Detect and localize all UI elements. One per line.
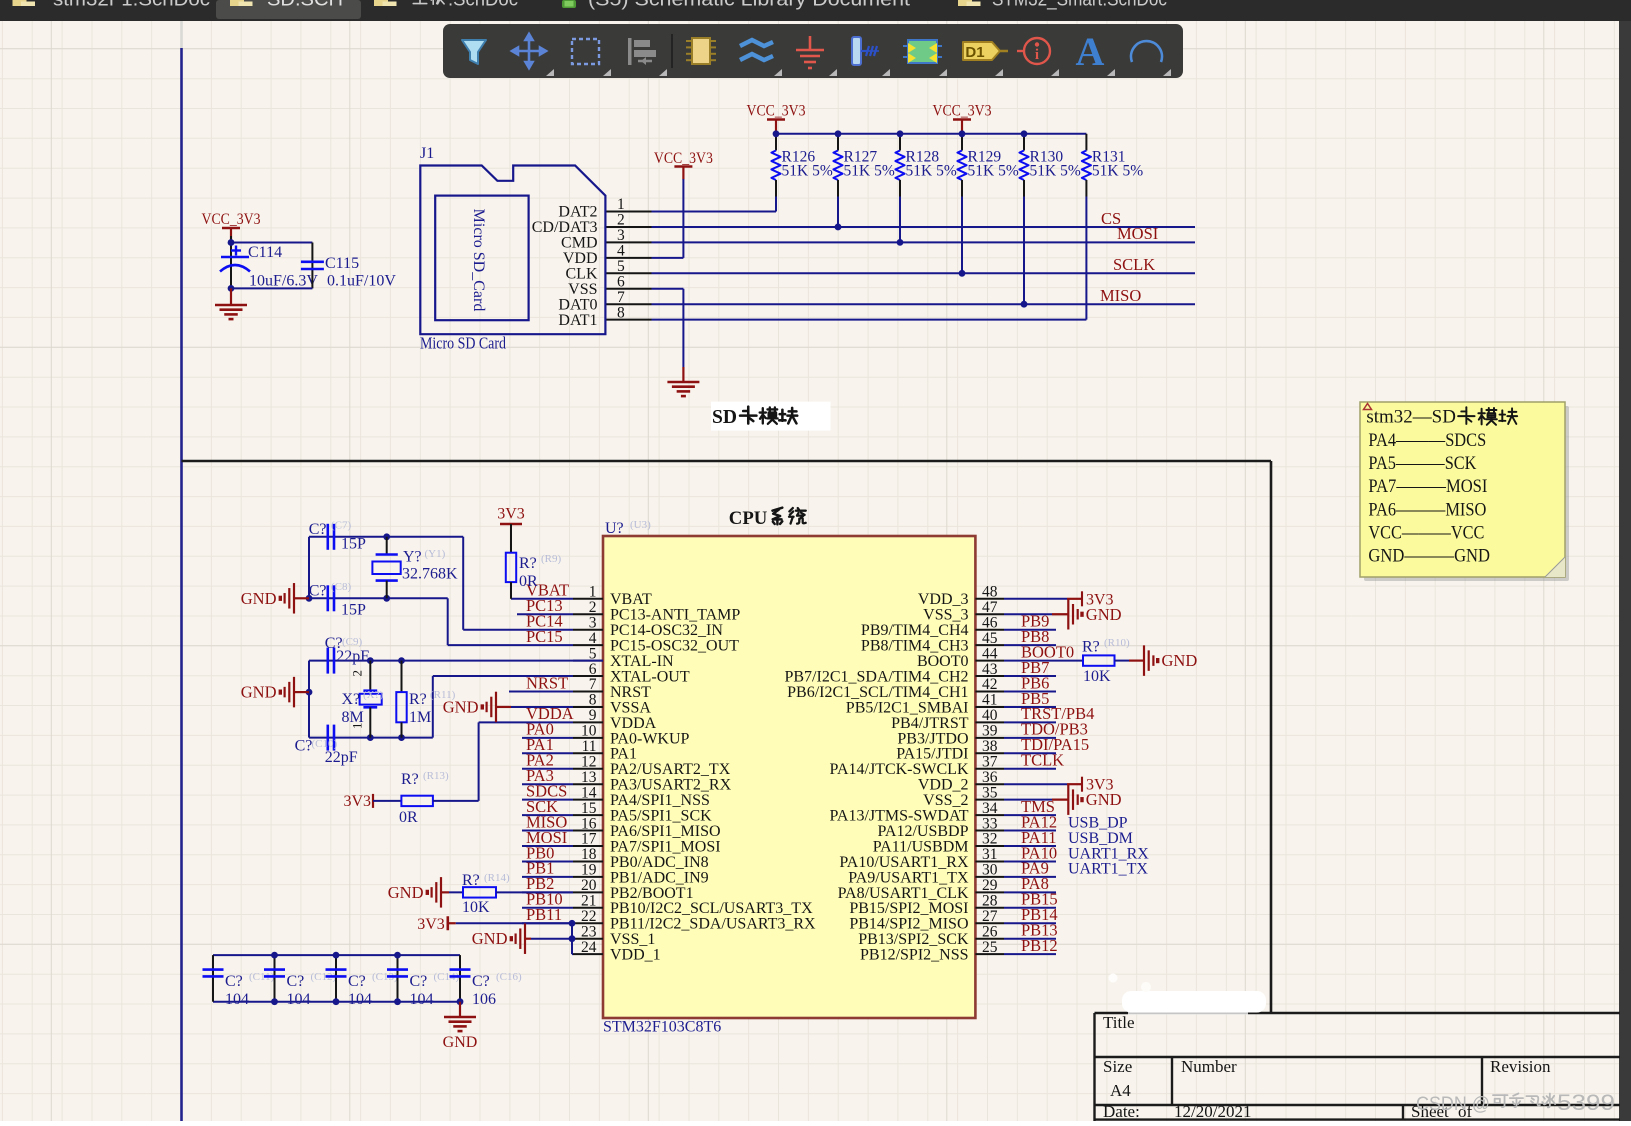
svg-text:PC15: PC15: [526, 627, 563, 646]
svg-text:C?: C?: [287, 973, 305, 990]
svg-text:PC13-ANTI_TAMP: PC13-ANTI_TAMP: [610, 607, 740, 624]
svg-text:14: 14: [581, 784, 597, 801]
svg-text:39: 39: [982, 723, 998, 740]
svg-text:PA7———MOSI: PA7———MOSI: [1368, 476, 1487, 497]
svg-text:Micro SD_Card: Micro SD_Card: [470, 209, 487, 312]
svg-text:104: 104: [225, 991, 249, 1008]
svg-text:VDD_1: VDD_1: [610, 947, 661, 964]
svg-text:15P: 15P: [341, 536, 366, 553]
svg-text:A4: A4: [1110, 1081, 1131, 1100]
svg-text:PB4/JTRST: PB4/JTRST: [891, 715, 969, 732]
svg-text:27: 27: [982, 908, 998, 925]
svg-text:6: 6: [589, 661, 597, 678]
svg-text:USB_DP: USB_DP: [1068, 814, 1128, 831]
svg-text:XTAL-IN: XTAL-IN: [610, 653, 674, 670]
svg-text:17: 17: [581, 831, 597, 848]
svg-text:(S5) Schematic Library Documen: (S5) Schematic Library Document: [588, 0, 911, 11]
svg-text:Y?: Y?: [403, 549, 422, 566]
svg-text:Micro SD Card: Micro SD Card: [420, 334, 507, 353]
svg-text:106: 106: [472, 991, 496, 1008]
svg-text:VBAT: VBAT: [610, 591, 652, 608]
svg-text:1: 1: [589, 584, 597, 601]
svg-text:104: 104: [348, 991, 372, 1008]
svg-text:R?: R?: [401, 771, 419, 788]
svg-text:VCC_3V3: VCC_3V3: [202, 211, 261, 228]
svg-text:(C8): (C8): [331, 581, 352, 593]
svg-text:CMD: CMD: [561, 235, 597, 252]
svg-text:(Y1): (Y1): [425, 548, 446, 560]
svg-text:(R9): (R9): [541, 553, 562, 565]
svg-text:PB15/SPI2_MOSI: PB15/SPI2_MOSI: [849, 900, 968, 917]
svg-text:VSSA: VSSA: [610, 699, 651, 716]
svg-text:R?: R?: [409, 691, 427, 708]
svg-text:PB3/JTDO: PB3/JTDO: [897, 730, 968, 747]
svg-text:GND: GND: [443, 697, 479, 716]
svg-text:15P: 15P: [341, 602, 366, 619]
svg-text:PC14-OSC32_IN: PC14-OSC32_IN: [610, 622, 723, 639]
svg-text:U?: U?: [605, 520, 624, 537]
svg-text:12: 12: [581, 753, 597, 770]
svg-text:PB8/TIM4_CH3: PB8/TIM4_CH3: [861, 638, 969, 655]
svg-text:PA6/SPI1_MISO: PA6/SPI1_MISO: [610, 823, 721, 840]
svg-text:X?: X?: [342, 691, 361, 708]
svg-text:Size: Size: [1103, 1057, 1132, 1076]
svg-text:PB5/I2C1_SMBAI: PB5/I2C1_SMBAI: [846, 699, 969, 716]
svg-text:BOOT0: BOOT0: [917, 653, 969, 670]
svg-text:XTAL-OUT: XTAL-OUT: [610, 668, 690, 685]
svg-text:1M: 1M: [409, 709, 431, 726]
svg-text:GND: GND: [388, 883, 424, 902]
svg-text:8: 8: [589, 692, 597, 709]
svg-text:PB13/SPI2_SCK: PB13/SPI2_SCK: [858, 931, 969, 948]
svg-text:stm32—SD: stm32—SD: [1366, 407, 1456, 428]
svg-text:C115: C115: [325, 255, 359, 272]
svg-text:38: 38: [982, 738, 998, 755]
svg-text:GND: GND: [443, 1034, 478, 1051]
svg-text:PB11: PB11: [526, 905, 562, 924]
svg-text:51K 5%: 51K 5%: [1092, 163, 1143, 180]
svg-text:J1: J1: [420, 145, 434, 162]
svg-text:PA0-WKUP: PA0-WKUP: [610, 730, 690, 747]
svg-text:C?: C?: [309, 583, 327, 600]
svg-text:(C16): (C16): [496, 971, 522, 983]
svg-text:VDD_2: VDD_2: [918, 777, 969, 794]
svg-text:PA4———SDCS: PA4———SDCS: [1368, 430, 1486, 451]
svg-text:PA1: PA1: [610, 746, 637, 763]
svg-text:DAT1: DAT1: [558, 312, 597, 329]
svg-text:33: 33: [982, 815, 998, 832]
svg-text:C?: C?: [410, 973, 428, 990]
svg-text:51K 5%: 51K 5%: [1030, 163, 1081, 180]
svg-text:5399: 5399: [1557, 1090, 1615, 1115]
svg-text:GND: GND: [1086, 605, 1122, 624]
svg-text:PA2/USART2_TX: PA2/USART2_TX: [610, 761, 731, 778]
svg-text:PA8/USART1_CLK: PA8/USART1_CLK: [838, 885, 969, 902]
svg-text:DAT0: DAT0: [558, 296, 597, 313]
svg-text:PB12/SPI2_NSS: PB12/SPI2_NSS: [860, 947, 969, 964]
svg-text:(R10): (R10): [1104, 637, 1130, 649]
svg-text:24: 24: [581, 939, 597, 956]
svg-text:40: 40: [982, 707, 998, 724]
svg-text:D1: D1: [965, 44, 984, 61]
svg-text:(C9): (C9): [342, 636, 363, 648]
svg-text:0.1uF/10V: 0.1uF/10V: [327, 273, 396, 290]
svg-text:9: 9: [589, 707, 597, 724]
svg-text:10K: 10K: [1083, 668, 1111, 685]
svg-text:8M: 8M: [342, 709, 364, 726]
svg-text:VCC_3V3: VCC_3V3: [747, 103, 806, 120]
svg-text:0R: 0R: [399, 809, 418, 826]
svg-text:7: 7: [589, 676, 597, 693]
svg-text:GND: GND: [241, 589, 277, 608]
svg-text:PB14/SPI2_MISO: PB14/SPI2_MISO: [849, 916, 968, 933]
svg-text:PA15/JTDI: PA15/JTDI: [896, 746, 968, 763]
svg-text:PB2/BOOT1: PB2/BOOT1: [610, 885, 694, 902]
svg-text:VSS: VSS: [568, 281, 597, 298]
svg-text:PB0/ADC_IN8: PB0/ADC_IN8: [610, 854, 709, 871]
svg-text:PA7/SPI1_MOSI: PA7/SPI1_MOSI: [610, 838, 721, 855]
svg-text:3V3: 3V3: [417, 916, 445, 933]
svg-text:GND: GND: [472, 929, 508, 948]
svg-text:VCC_3V3: VCC_3V3: [933, 103, 992, 120]
svg-text:C?: C?: [472, 973, 490, 990]
svg-text:51K 5%: 51K 5%: [844, 163, 895, 180]
svg-text:USB_DM: USB_DM: [1068, 830, 1133, 847]
svg-text:Revision: Revision: [1490, 1057, 1551, 1076]
svg-text:GND———GND: GND———GND: [1368, 546, 1490, 567]
svg-text:SD.SCH: SD.SCH: [267, 0, 343, 11]
svg-text:25: 25: [982, 939, 998, 956]
svg-text:STM32_Smart.SchDoc: STM32_Smart.SchDoc: [992, 0, 1167, 11]
svg-text:(R14): (R14): [484, 872, 510, 884]
svg-text:46: 46: [982, 614, 998, 631]
svg-text:42: 42: [982, 676, 998, 693]
svg-text:PA3/USART2_RX: PA3/USART2_RX: [610, 777, 732, 794]
svg-text:(C7): (C7): [331, 520, 352, 532]
svg-text:MOSI: MOSI: [1117, 224, 1158, 243]
svg-text:R?: R?: [519, 555, 537, 572]
svg-text:51K 5%: 51K 5%: [906, 163, 957, 180]
svg-text:.SchDoc: .SchDoc: [448, 0, 518, 11]
svg-text:51K 5%: 51K 5%: [968, 163, 1019, 180]
svg-text:28: 28: [982, 893, 998, 910]
svg-text:STM32F103C8T6: STM32F103C8T6: [603, 1019, 721, 1036]
svg-text:32.768K: 32.768K: [402, 565, 458, 582]
svg-text:10uF/6.3V: 10uF/6.3V: [249, 273, 318, 290]
svg-text:CLK: CLK: [566, 266, 598, 283]
svg-text:Title: Title: [1103, 1013, 1135, 1032]
svg-text:PB1/ADC_IN9: PB1/ADC_IN9: [610, 869, 709, 886]
svg-text:2: 2: [349, 670, 364, 677]
svg-text:10K: 10K: [462, 899, 490, 916]
svg-text:22pF: 22pF: [325, 749, 358, 766]
svg-text:PA13/JTMS-SWDAT: PA13/JTMS-SWDAT: [830, 808, 969, 825]
svg-text:PB7/I2C1_SDA/TIM4_CH2: PB7/I2C1_SDA/TIM4_CH2: [784, 668, 968, 685]
svg-text:48: 48: [982, 584, 998, 601]
svg-text:GND: GND: [1086, 790, 1122, 809]
svg-text:29: 29: [982, 877, 998, 894]
svg-text:26: 26: [982, 923, 998, 940]
svg-text:TCLK: TCLK: [1021, 751, 1064, 770]
svg-text:34: 34: [982, 800, 998, 817]
svg-text:44: 44: [982, 645, 998, 662]
svg-text:PB11/I2C2_SDA/USART3_RX: PB11/I2C2_SDA/USART3_RX: [610, 916, 816, 933]
svg-text:13: 13: [581, 769, 597, 786]
svg-text:35: 35: [982, 784, 998, 801]
svg-text:4: 4: [589, 630, 597, 647]
svg-text:30: 30: [982, 862, 998, 879]
svg-text:PB6/I2C1_SCL/TIM4_CH1: PB6/I2C1_SCL/TIM4_CH1: [787, 684, 968, 701]
svg-text:UART1_RX: UART1_RX: [1068, 845, 1149, 862]
svg-text:23: 23: [581, 923, 597, 940]
svg-text:R?: R?: [462, 872, 480, 889]
svg-text:3V3: 3V3: [497, 506, 525, 523]
svg-text:i: i: [1035, 47, 1039, 63]
svg-text:SCLK: SCLK: [1113, 255, 1155, 274]
svg-text:22: 22: [581, 908, 597, 925]
svg-text:PA4/SPI1_NSS: PA4/SPI1_NSS: [610, 792, 710, 809]
svg-text:21: 21: [581, 893, 597, 910]
svg-text:PA5/SPI1_SCK: PA5/SPI1_SCK: [610, 808, 712, 825]
svg-text:CD/DAT3: CD/DAT3: [532, 219, 598, 236]
svg-text:2: 2: [589, 599, 597, 616]
svg-text:PA10/USART1_RX: PA10/USART1_RX: [839, 854, 969, 871]
svg-text:VSS_2: VSS_2: [923, 792, 968, 809]
svg-text:37: 37: [982, 753, 998, 770]
svg-text:31: 31: [982, 846, 998, 863]
svg-text:11: 11: [582, 738, 597, 755]
svg-text:12/20/2021: 12/20/2021: [1174, 1102, 1251, 1121]
svg-text:32: 32: [982, 831, 998, 848]
svg-text:DAT2: DAT2: [558, 204, 597, 221]
svg-text:(R13): (R13): [423, 770, 449, 782]
svg-text:NRST: NRST: [610, 684, 651, 701]
svg-text:VDD: VDD: [563, 250, 598, 267]
svg-text:MISO: MISO: [1100, 286, 1141, 305]
svg-text:A: A: [1076, 29, 1105, 74]
svg-text:16: 16: [581, 815, 597, 832]
svg-text:C?: C?: [309, 521, 327, 538]
svg-text:Number: Number: [1181, 1057, 1237, 1076]
svg-text:PA5———SCK: PA5———SCK: [1368, 453, 1476, 474]
svg-text:C114: C114: [248, 244, 282, 261]
svg-text:20: 20: [581, 877, 597, 894]
svg-text:PA14/JTCK-SWCLK: PA14/JTCK-SWCLK: [830, 761, 969, 778]
svg-text:C?: C?: [348, 973, 366, 990]
svg-text:18: 18: [581, 846, 597, 863]
svg-text:VCC———VCC: VCC———VCC: [1368, 523, 1484, 544]
svg-text:104: 104: [410, 991, 434, 1008]
svg-text:UART1_TX: UART1_TX: [1068, 861, 1148, 878]
svg-text:CPU: CPU: [729, 508, 768, 529]
svg-text:PA12/USBDP: PA12/USBDP: [877, 823, 968, 840]
svg-text:PB12: PB12: [1021, 936, 1058, 955]
svg-text:PA9/USART1_TX: PA9/USART1_TX: [848, 869, 969, 886]
svg-text:VDD_3: VDD_3: [918, 591, 969, 608]
svg-text:PB9/TIM4_CH4: PB9/TIM4_CH4: [861, 622, 969, 639]
svg-text:VCC_3V3: VCC_3V3: [654, 150, 713, 167]
svg-text:GND: GND: [241, 683, 277, 702]
svg-text:PC15-OSC32_OUT: PC15-OSC32_OUT: [610, 638, 739, 655]
svg-text:R?: R?: [1082, 639, 1100, 656]
svg-text:(X?): (X?): [363, 689, 383, 701]
svg-text:VDDA: VDDA: [610, 715, 657, 732]
svg-text:stm32F1.SchDoc: stm32F1.SchDoc: [53, 0, 210, 11]
svg-text:3: 3: [589, 614, 597, 631]
svg-text:PA6———MISO: PA6———MISO: [1368, 499, 1486, 520]
svg-text:45: 45: [982, 630, 998, 647]
svg-text:Date:: Date:: [1103, 1102, 1140, 1121]
svg-text:51K 5%: 51K 5%: [782, 163, 833, 180]
svg-text:CSDN @: CSDN @: [1416, 1094, 1490, 1115]
svg-text:36: 36: [982, 769, 998, 786]
svg-text:10: 10: [581, 723, 597, 740]
svg-text:GND: GND: [1162, 651, 1198, 670]
svg-text:PB10/I2C2_SCL/USART3_TX: PB10/I2C2_SCL/USART3_TX: [610, 900, 813, 917]
svg-text:C?: C?: [225, 973, 243, 990]
svg-text:(U3): (U3): [630, 519, 651, 531]
svg-text:PA11/USBDM: PA11/USBDM: [873, 838, 969, 855]
svg-text:0R: 0R: [519, 573, 538, 590]
svg-text:19: 19: [581, 862, 597, 879]
svg-text:SD: SD: [712, 406, 737, 428]
svg-text:43: 43: [982, 661, 998, 678]
svg-text:15: 15: [581, 800, 597, 817]
svg-text:41: 41: [982, 692, 998, 709]
svg-text:3V3: 3V3: [343, 793, 371, 810]
svg-text:VSS_1: VSS_1: [610, 931, 655, 948]
svg-text:47: 47: [982, 599, 998, 616]
svg-text:VSS_3: VSS_3: [923, 607, 968, 624]
svg-text:104: 104: [287, 991, 311, 1008]
svg-text:22pF: 22pF: [336, 648, 369, 665]
svg-text:C?: C?: [295, 738, 313, 755]
